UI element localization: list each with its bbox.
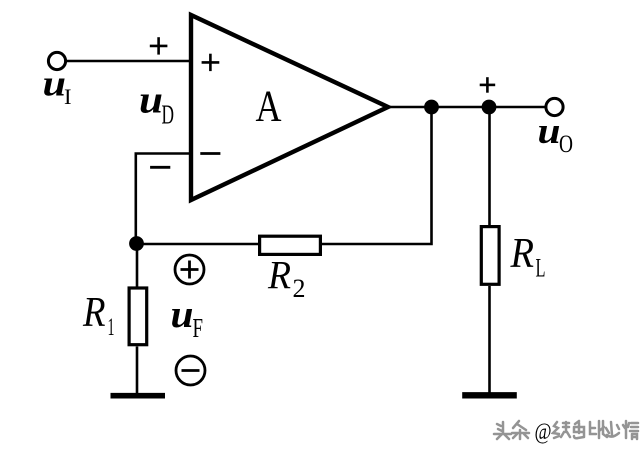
polarity mark: circled plus (uF +): [175, 255, 204, 284]
resistor R2: [260, 236, 321, 254]
input terminal uI: [48, 52, 65, 69]
svg-text:F: F: [193, 313, 204, 343]
svg-text:u: u: [43, 64, 67, 105]
wire: R1 to ground: [136, 347, 139, 395]
wire: op-amp inverting input, down-left to feedback node: [136, 154, 191, 244]
svg-text:1: 1: [108, 314, 115, 341]
wire: node down to R1: [136, 244, 139, 288]
label + (op-amp noninverting pin): [202, 54, 220, 71]
wire: load junction down to RL: [488, 107, 491, 225]
svg-text:R: R: [82, 290, 105, 336]
label + (input polarity above wire): [150, 37, 168, 54]
svg-text:2: 2: [293, 274, 306, 303]
label - (op-amp inverting pin): [200, 152, 220, 155]
svg-text:O: O: [559, 129, 573, 158]
ground (left): [111, 393, 166, 399]
watermark char: xin: [606, 422, 619, 437]
watermark char: bi: [590, 421, 607, 438]
svg-text:@: @: [535, 419, 552, 444]
wire: RL to ground: [488, 286, 491, 393]
polarity mark: circled minus (uF -): [176, 356, 205, 385]
svg-text:D: D: [162, 100, 175, 130]
svg-text:L: L: [536, 254, 546, 283]
node: output junction (feedback tap): [424, 100, 439, 115]
label - (inverting polarity below wire): [150, 166, 170, 169]
node: load junction: [482, 100, 497, 115]
op-amp A: [191, 15, 388, 200]
wire: feedback node to R2 left: [136, 243, 258, 246]
watermark char: se: [574, 421, 584, 438]
svg-text:R: R: [510, 231, 534, 277]
wire: op-amp output to terminal: [388, 106, 548, 109]
output terminal uO: [546, 98, 563, 115]
svg-text:I: I: [64, 84, 72, 109]
label + (output polarity): [480, 77, 496, 93]
resistor RL: [481, 227, 499, 285]
svg-text:u: u: [538, 111, 561, 152]
watermark char: qing: [623, 421, 638, 439]
node: feedback node (R1/R2 junction): [129, 236, 144, 251]
ground (right): [462, 392, 517, 398]
watermark char: lv: [553, 422, 570, 438]
svg-text:A: A: [256, 82, 282, 131]
watermark char: tou: [494, 422, 511, 439]
watermark: 头条 @绿色比心情 (hand-drawn grey strokes, CJK not in Liberation): [494, 421, 529, 439]
svg-text:u: u: [171, 293, 194, 336]
wire: input terminal to op-amp + input: [65, 60, 191, 63]
wire: feedback from output rail down to R2: [322, 107, 432, 244]
resistor R1: [129, 288, 147, 345]
svg-text:R: R: [267, 253, 291, 298]
svg-text:u: u: [139, 79, 163, 122]
watermark char: tiao: [512, 421, 529, 439]
